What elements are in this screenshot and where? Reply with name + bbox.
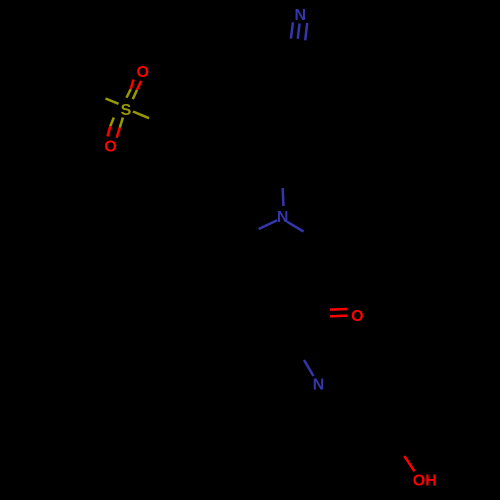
- svg-text:S: S: [121, 102, 132, 119]
- svg-text:O: O: [351, 308, 363, 325]
- svg-text:N: N: [313, 377, 325, 394]
- svg-text:N: N: [295, 7, 307, 24]
- svg-text:O: O: [136, 64, 148, 81]
- svg-text:N: N: [277, 209, 289, 226]
- svg-text:OH: OH: [413, 473, 437, 490]
- svg-text:O: O: [104, 139, 116, 156]
